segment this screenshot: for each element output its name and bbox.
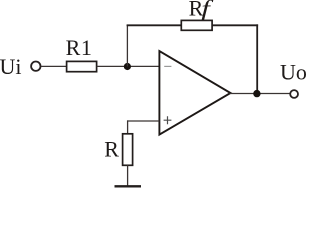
wire feedback down to output node (256, 24, 258, 93)
wire R to ground (127, 165, 129, 186)
wire op-amp output (230, 93, 290, 95)
op-amp minus sign (164, 65, 171, 67)
wire node A up to feedback (126, 25, 128, 67)
svg-text:Ui: Ui (0, 54, 22, 79)
output node junction dot (253, 90, 260, 97)
wire down to resistor R (127, 120, 129, 134)
ground (115, 185, 142, 187)
op-amp plus sign (164, 116, 172, 124)
input terminal circle (31, 61, 40, 70)
resistor R (123, 134, 133, 166)
node A junction dot (124, 63, 131, 70)
wire R1 to op-amp inverting input (97, 65, 160, 67)
svg-text:Uo: Uo (280, 59, 307, 84)
wire input circle to R1 (41, 65, 67, 67)
wire non-inverting input horizontal (127, 120, 159, 122)
svg-text:R1: R1 (66, 35, 92, 60)
resistor R1 (67, 61, 97, 71)
resistor Rf (181, 20, 212, 30)
wire feedback right segment (212, 24, 258, 26)
output terminal circle (290, 90, 298, 98)
svg-text:R: R (104, 136, 119, 161)
wire feedback left segment (127, 24, 182, 26)
op-amp U1 triangle (159, 51, 230, 135)
